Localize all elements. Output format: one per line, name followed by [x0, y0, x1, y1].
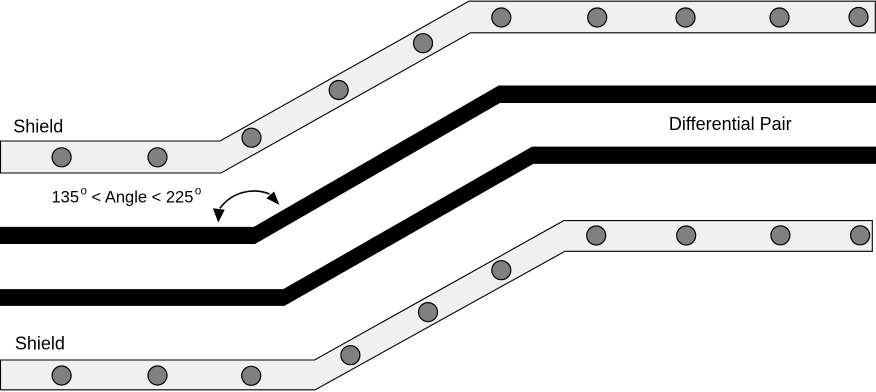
svg-text:135o < Angle < 225o: 135o < Angle < 225o [52, 185, 202, 206]
svg-text:Differential Pair: Differential Pair [669, 114, 792, 134]
svg-text:Shield: Shield [15, 334, 65, 354]
svg-text:Shield: Shield [13, 117, 63, 137]
